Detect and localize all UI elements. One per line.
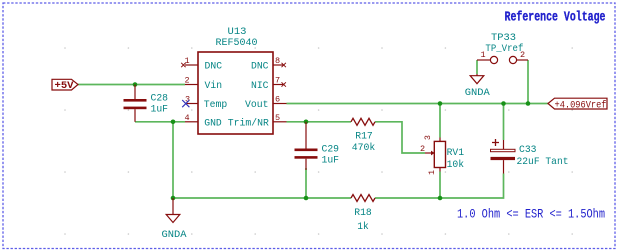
svg-text:1: 1 xyxy=(184,56,189,66)
capacitor C29 1uF xyxy=(295,122,340,170)
U13 pin 7 (NIC, right) with unconnected x xyxy=(251,76,286,93)
U13 pin 5 (Trim/NR, right) xyxy=(228,113,287,130)
TP33 pin 1 xyxy=(477,59,491,61)
junction C33 top on Vout xyxy=(501,101,506,106)
junction C29 top on Trim wire xyxy=(304,120,309,125)
grid dots (decorative) xyxy=(64,47,573,235)
U13 pin 1 (DNC, left) with unconnected x xyxy=(181,56,222,73)
svg-text:22uF Tant: 22uF Tant xyxy=(517,156,569,168)
svg-text:1k: 1k xyxy=(357,221,369,233)
junction TP2 on Vout xyxy=(526,101,531,106)
U13 pin 6 (Vout, right) xyxy=(245,95,287,112)
wire C33 top to Vout net xyxy=(503,104,505,141)
wire TP33 pin 2 to Vout net xyxy=(527,60,529,104)
svg-text:Temp: Temp xyxy=(204,99,228,111)
test point TP33 TP_Vref xyxy=(477,32,528,64)
svg-text:Vout: Vout xyxy=(245,99,269,111)
svg-text:TP_Vref: TP_Vref xyxy=(485,43,523,55)
svg-text:R18: R18 xyxy=(354,207,372,219)
svg-text:Vin: Vin xyxy=(205,80,223,92)
svg-text:Trim/NR: Trim/NR xyxy=(228,117,270,129)
svg-text:3: 3 xyxy=(423,135,433,140)
global label +4.096Vref xyxy=(548,98,607,111)
wire Trim/NR (pin 5) to R17 xyxy=(287,121,352,123)
resistor R17 470k xyxy=(351,118,375,154)
svg-text:DNC: DNC xyxy=(205,61,223,73)
svg-text:GND: GND xyxy=(204,117,222,129)
svg-text:RV1: RV1 xyxy=(447,147,465,159)
capacitor C33 22uF Tant (polarized) xyxy=(491,139,569,174)
svg-text:7: 7 xyxy=(275,76,280,86)
svg-text:GNDA: GNDA xyxy=(465,87,491,99)
svg-text:5: 5 xyxy=(275,113,280,123)
U13 pin 4 (GND, left) xyxy=(184,113,221,130)
junction C29 bottom on rail xyxy=(304,196,309,201)
TP33 pin 2 xyxy=(517,59,529,61)
svg-text:R17: R17 xyxy=(355,130,373,142)
svg-text:8: 8 xyxy=(275,56,280,66)
svg-text:6: 6 xyxy=(275,95,280,105)
svg-text:2: 2 xyxy=(184,76,189,86)
junction GND branch on row4 xyxy=(171,120,176,125)
svg-text:1: 1 xyxy=(427,170,437,175)
wire ground rail left (to R18) xyxy=(173,197,351,199)
U13 pin 8 (DNC, right) with unconnected x xyxy=(251,56,286,73)
U13 pin 2 (Vin, left) xyxy=(184,76,222,93)
svg-text:+5V: +5V xyxy=(55,81,74,92)
svg-text:1uF: 1uF xyxy=(322,154,340,166)
wire RV1 bottom to ground rail xyxy=(439,172,441,199)
svg-text:1uF: 1uF xyxy=(151,103,169,115)
wire C29 bottom to ground rail xyxy=(305,168,307,198)
resistor R18 1k xyxy=(351,195,375,233)
op-amp/IC U13 REF5040 body xyxy=(198,26,273,134)
capacitor C28 1uF xyxy=(124,85,169,122)
U13 pin 3 (Temp, left) with no-connect flag xyxy=(182,95,227,112)
svg-text:NIC: NIC xyxy=(251,80,269,92)
junction RV1 bottom on rail xyxy=(438,196,443,201)
svg-text:DNC: DNC xyxy=(251,61,269,73)
svg-text:C33: C33 xyxy=(519,144,537,156)
wire TP33 pin 1 to GNDA xyxy=(476,60,478,74)
global label +5V xyxy=(52,79,78,92)
svg-text:Reference Voltage: Reference Voltage xyxy=(505,10,606,26)
potentiometer RV1 10k xyxy=(420,135,464,175)
wire RV1 top to Vout net xyxy=(439,104,441,138)
wire Vout net (pin 6 to +4.096Vref label) xyxy=(287,103,549,105)
svg-text:10k: 10k xyxy=(447,159,465,171)
svg-text:2: 2 xyxy=(420,144,425,154)
svg-text:2: 2 xyxy=(520,50,525,60)
wire C28 bottom to U13 GND (pin 4) xyxy=(135,121,185,123)
svg-text:4: 4 xyxy=(184,113,189,123)
svg-text:+4.096Vref: +4.096Vref xyxy=(555,99,607,111)
wire +5V to U13 Vin (pin 2) xyxy=(78,84,185,86)
svg-text:1: 1 xyxy=(480,50,485,60)
junction at C28/+5V xyxy=(133,82,138,87)
svg-text:GNDA: GNDA xyxy=(162,229,188,241)
ground GNDA (bottom left) xyxy=(162,198,188,241)
ground GNDA (under TP33 pin 1) xyxy=(465,74,491,99)
svg-text:1.0 Ohm <= ESR <= 1.5Ohm: 1.0 Ohm <= ESR <= 1.5Ohm xyxy=(457,208,605,222)
svg-text:REF5040: REF5040 xyxy=(216,37,258,49)
wire R17 to RV1 wiper xyxy=(375,122,425,153)
svg-text:U13: U13 xyxy=(228,26,247,38)
svg-text:470k: 470k xyxy=(352,142,376,154)
wire ground rail right (R18 to C33 bottom) xyxy=(375,174,504,199)
junction rail/ground T xyxy=(171,196,176,201)
junction RV1 top on Vout xyxy=(438,101,443,106)
wire GND branch vertical xyxy=(172,122,174,198)
